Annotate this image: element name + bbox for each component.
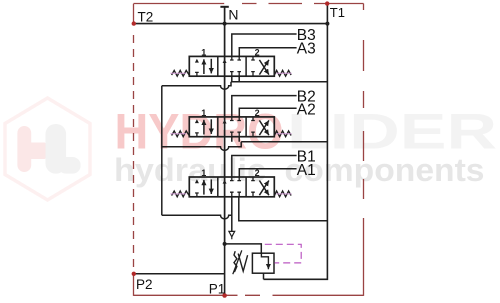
- watermark logo hexagon: [5, 98, 90, 200]
- watermark logo letter H: [17, 126, 46, 172]
- wire left tank manifold vertical: [161, 86, 163, 216]
- svg-text:2: 2: [255, 47, 260, 57]
- relief valve RV1 body: [252, 253, 274, 273]
- svg-text:P1: P1: [209, 281, 226, 296]
- wire tank rail under valve V3 with hop: [162, 82, 328, 89]
- wire V1 B-side drop to arrow: [231, 197, 233, 232]
- neutral open-center arrowhead: [223, 59, 227, 63]
- dashed enclosure border left: [133, 4, 135, 296]
- spring magenta axis: [170, 72, 291, 74]
- wire T1 drop and tank return bottom: [264, 4, 328, 280]
- wire port line B2: [232, 96, 297, 117]
- port dot T1: [325, 1, 329, 5]
- directional valve V2: [170, 108, 291, 137]
- svg-text:A1: A1: [297, 162, 316, 179]
- wire V2 tank stubs: [232, 137, 239, 142]
- svg-text:1: 1: [201, 47, 206, 57]
- junction node at N: [223, 22, 227, 26]
- wire port line A3: [239, 48, 296, 57]
- dashed enclosure border right: [363, 4, 365, 296]
- svg-text:T1: T1: [330, 5, 345, 20]
- wire tank rail under valve V1 with hop: [162, 215, 232, 219]
- wire port line B3: [232, 34, 297, 56]
- wire N-P carryover vertical: [224, 7, 226, 244]
- spring right: [274, 70, 291, 76]
- wire P junction to relief inlet: [225, 244, 262, 253]
- valve body boxes: [189, 56, 274, 76]
- relief valve adjust arrow: [233, 250, 242, 274]
- pilot line (magenta dashed): [265, 244, 301, 263]
- port dot P2: [132, 272, 136, 276]
- svg-text:A3: A3: [297, 41, 316, 58]
- spring left: [172, 70, 190, 76]
- position 2 blocked stubs: [251, 56, 255, 76]
- node N cap: [220, 6, 228, 8]
- flow arrow into P line (open triangle): [229, 231, 235, 239]
- svg-text:P2: P2: [136, 277, 153, 292]
- junction node P: [223, 242, 227, 246]
- position 1 arrows: [195, 59, 199, 63]
- svg-text:N: N: [228, 7, 238, 23]
- watermark logo letter L: [46, 124, 81, 174]
- svg-text:T2: T2: [138, 10, 154, 25]
- wire P vertical to P1: [224, 244, 226, 296]
- port dot P1: [222, 293, 227, 298]
- directional valve V1: [170, 168, 291, 197]
- junction node T2 rail to T1 drop: [325, 22, 329, 26]
- wire tank rail under valve V2 with hop: [162, 142, 328, 151]
- relief valve internal flow path: [261, 253, 268, 269]
- position 2 crossed arrows: [259, 60, 269, 75]
- wire port line A1: [239, 169, 296, 177]
- relief valve spring: [234, 251, 248, 272]
- wire V1 A-side drop and return rail to T1: [239, 197, 328, 221]
- directional valve V3: [170, 47, 291, 76]
- svg-text:A2: A2: [297, 101, 316, 118]
- wire port line B1: [232, 156, 297, 178]
- dashed enclosure border top: [134, 3, 364, 5]
- wire port line A2: [239, 108, 296, 117]
- wire relief outlet: [263, 273, 265, 279]
- neutral blocked stubs: [230, 56, 241, 76]
- wire P2 rail: [134, 273, 225, 275]
- wire V3 tank stubs: [232, 76, 239, 82]
- dashed enclosure border bottom: [134, 294, 364, 296]
- port dot T2: [132, 21, 136, 25]
- wire T2 rail: [134, 23, 328, 25]
